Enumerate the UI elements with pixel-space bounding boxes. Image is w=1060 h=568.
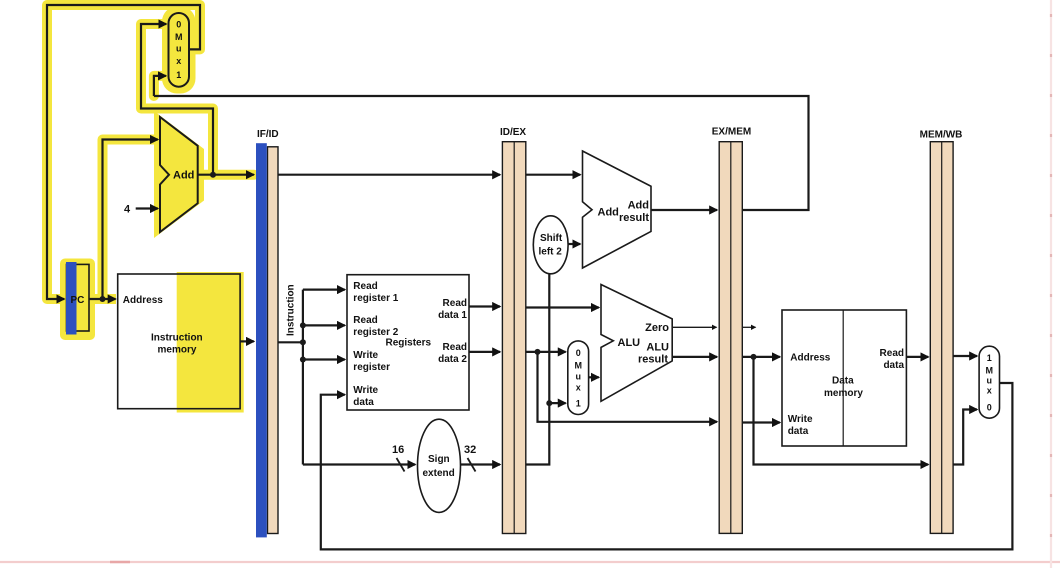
svg-text:Address: Address bbox=[790, 353, 830, 364]
shift left 2 unit bbox=[533, 216, 568, 274]
wire: PC+4 IF/ID to ID/EX bbox=[278, 174, 500, 176]
svg-text:MEM/WB: MEM/WB bbox=[920, 130, 963, 141]
wire: PC+4 Add output to top mux input 0 bbox=[141, 24, 213, 175]
highlight: PC to instruction memory wire bbox=[89, 294, 116, 304]
svg-text:Add: Add bbox=[598, 207, 619, 219]
svg-text:memory: memory bbox=[158, 345, 197, 356]
node: instruction bus junction bbox=[300, 339, 306, 345]
wire: data memory read data to MEM/WB bbox=[906, 356, 928, 358]
svg-text:Address: Address bbox=[123, 295, 163, 306]
svg-text:Write: Write bbox=[353, 385, 378, 396]
svg-text:data 1: data 1 bbox=[438, 310, 467, 321]
wire: to write register bbox=[303, 358, 345, 360]
wire: ID/EX read data 1 to ALU bbox=[526, 306, 599, 308]
svg-text:data: data bbox=[883, 360, 904, 371]
svg-text:0: 0 bbox=[176, 20, 181, 30]
ALU U1 bbox=[601, 285, 672, 402]
wire: PC to Add top input bbox=[103, 140, 158, 300]
highlight: glow around top mux bbox=[162, 7, 196, 94]
wire: EX/MEM to data memory write data bbox=[742, 421, 780, 423]
svg-text:ID/EX: ID/EX bbox=[500, 127, 526, 138]
node: read data 2 branch junction bbox=[535, 349, 541, 355]
adder Add (PC+4, IF stage) bbox=[160, 117, 198, 232]
svg-text:Read: Read bbox=[353, 315, 377, 326]
wire: PC feedback (mux output to PC) bbox=[47, 5, 200, 299]
svg-text:Instruction: Instruction bbox=[151, 333, 203, 344]
highlight: mux input 1 stub bbox=[154, 76, 166, 96]
svg-text:ALU: ALU bbox=[618, 337, 641, 349]
wire: constant 4 to Add bbox=[136, 207, 158, 209]
svg-text:Instruction: Instruction bbox=[286, 284, 297, 336]
node: immediate branch junction bbox=[546, 400, 552, 406]
svg-text:register 2: register 2 bbox=[353, 327, 398, 338]
svg-text:16: 16 bbox=[392, 444, 404, 456]
svg-text:M: M bbox=[175, 32, 183, 42]
highlight: PC feedback wire bbox=[47, 5, 200, 299]
svg-text:x: x bbox=[576, 383, 581, 393]
wire: ALU result bypass to MEM/WB bbox=[754, 357, 929, 465]
highlight: Add output to IF/ID wire bbox=[198, 170, 254, 180]
wire: to sign extend bbox=[303, 463, 415, 465]
wire: Add output to IF/ID bbox=[198, 174, 254, 176]
svg-text:Add: Add bbox=[173, 170, 194, 182]
svg-text:Read: Read bbox=[443, 342, 467, 353]
block: instruction memory bbox=[118, 274, 240, 409]
block: registers bbox=[347, 275, 469, 410]
svg-text:u: u bbox=[176, 44, 182, 54]
svg-text:u: u bbox=[575, 372, 581, 382]
svg-text:memory: memory bbox=[824, 388, 863, 399]
wire: ALU mux output to ALU bbox=[589, 376, 599, 378]
svg-text:data: data bbox=[353, 397, 374, 408]
svg-text:result: result bbox=[638, 354, 668, 366]
mux M3 (write-back mux) bbox=[979, 346, 999, 418]
svg-text:M: M bbox=[986, 366, 994, 376]
wire: MEM/WB read data to WB mux input 1 bbox=[953, 355, 977, 357]
sign extend unit bbox=[418, 419, 461, 512]
svg-text:IF/ID: IF/ID bbox=[257, 129, 279, 140]
adder Add (branch target, EX stage) bbox=[583, 151, 652, 268]
wire: write-back loop to write data bbox=[321, 383, 1013, 549]
svg-text:Write: Write bbox=[788, 414, 813, 425]
mux M2 (ALU source mux) bbox=[568, 341, 589, 415]
svg-text:Data: Data bbox=[832, 376, 854, 387]
frame: pink border accent mark bbox=[110, 561, 130, 563]
wire: read data 2 down to EX/MEM write data bbox=[538, 352, 718, 422]
svg-text:Add: Add bbox=[628, 200, 649, 212]
svg-text:0: 0 bbox=[576, 348, 581, 358]
svg-text:0: 0 bbox=[987, 403, 992, 413]
svg-text:register 1: register 1 bbox=[353, 293, 398, 304]
svg-text:data: data bbox=[788, 426, 809, 437]
svg-text:ALU: ALU bbox=[646, 342, 669, 354]
wire: ALU result to EX/MEM bbox=[672, 356, 717, 358]
svg-text:PC: PC bbox=[71, 295, 85, 306]
node: PC output junction bbox=[100, 296, 106, 302]
svg-text:32: 32 bbox=[464, 444, 476, 456]
wire: branch Add result to EX/MEM bbox=[651, 209, 717, 211]
register PC bbox=[67, 264, 90, 331]
wire: EX/MEM to data memory address bbox=[742, 356, 780, 358]
svg-text:1: 1 bbox=[176, 70, 181, 80]
svg-text:1: 1 bbox=[576, 399, 581, 409]
svg-text:4: 4 bbox=[124, 204, 131, 216]
wire: ID/EX read data 2 to ALU mux input 0 bbox=[526, 351, 566, 353]
svg-text:Registers: Registers bbox=[386, 338, 432, 349]
wire: to read register 1 bbox=[303, 289, 345, 291]
highlight: instruction memory right half bbox=[177, 272, 244, 413]
svg-text:x: x bbox=[987, 386, 992, 396]
tick: 16-bit slash bbox=[397, 458, 405, 472]
frame: pink border right dots bbox=[1050, 14, 1052, 568]
svg-text:x: x bbox=[176, 56, 181, 66]
wire: mux input 1 stub bbox=[154, 76, 166, 96]
svg-text:Sign: Sign bbox=[428, 454, 450, 465]
svg-text:left 2: left 2 bbox=[539, 247, 563, 258]
node: instruction bus junction read register 2 bbox=[300, 322, 306, 328]
wire: instruction out of IF/ID bbox=[278, 341, 303, 343]
node: Add output junction bbox=[210, 172, 216, 178]
wire: instruction memory to IF/ID bbox=[240, 340, 254, 342]
svg-text:Read: Read bbox=[443, 298, 467, 309]
wire: read data 1 to ID/EX bbox=[469, 305, 500, 307]
frame: pink border right bbox=[1050, 0, 1052, 568]
highlight: PC+4 to mux wire bbox=[141, 24, 213, 175]
mux M1 (top PC source mux) bbox=[169, 13, 190, 87]
wire: ALU result to WB mux input 0 bbox=[953, 410, 977, 465]
wire: shift left 2 to branch Add bbox=[568, 243, 580, 245]
wire: immediate to ALU mux input 1 bbox=[549, 402, 565, 404]
wire: read data 2 to ID/EX bbox=[469, 351, 500, 353]
svg-text:Read: Read bbox=[353, 281, 377, 292]
wire: sign extend to ID/EX bbox=[460, 463, 500, 465]
svg-text:register: register bbox=[353, 362, 390, 373]
svg-text:data 2: data 2 bbox=[438, 354, 467, 365]
block: data memory bbox=[782, 310, 906, 446]
svg-text:Zero: Zero bbox=[645, 322, 669, 334]
tick: 32-bit slash bbox=[468, 458, 476, 472]
highlight: PC to Add wire bbox=[103, 140, 159, 300]
svg-text:Shift: Shift bbox=[540, 233, 563, 244]
wire: immediate up to shift left 2 bbox=[526, 274, 550, 465]
frame: pink border bottom bbox=[0, 561, 1060, 563]
svg-text:u: u bbox=[987, 376, 993, 386]
svg-text:extend: extend bbox=[423, 468, 455, 479]
highlight: glow around PC bbox=[60, 259, 95, 341]
svg-text:result: result bbox=[619, 212, 649, 224]
svg-text:Write: Write bbox=[353, 350, 378, 361]
wire: ID/EX to branch Add bbox=[526, 174, 580, 176]
svg-text:Read: Read bbox=[880, 348, 904, 359]
wire: zero stub out of EX/MEM bbox=[742, 326, 755, 328]
highlight: glow around Add bbox=[154, 111, 204, 238]
wire: ALU zero to EX/MEM bbox=[672, 326, 716, 328]
wire: branch target EX/MEM to top mux bbox=[154, 96, 809, 210]
svg-text:1: 1 bbox=[987, 353, 992, 363]
node: instruction bus junction write register bbox=[300, 357, 306, 363]
svg-text:M: M bbox=[574, 361, 582, 371]
svg-text:EX/MEM: EX/MEM bbox=[712, 127, 751, 138]
node: ALU result branch junction bbox=[751, 354, 757, 360]
wire: to read register 2 bbox=[303, 324, 345, 326]
wire: instruction vertical bus bbox=[302, 290, 304, 465]
wire: PC to instruction memory address bbox=[89, 298, 116, 300]
